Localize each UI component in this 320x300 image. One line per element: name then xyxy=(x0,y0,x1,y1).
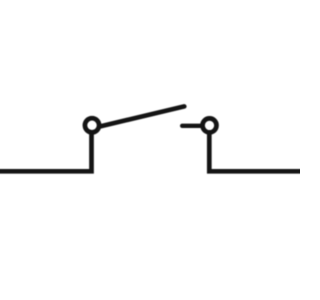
switch S1 left terminal xyxy=(85,118,99,132)
wire left lead with corner up to left terminal xyxy=(0,131,92,171)
wire right lead with corner from right terminal xyxy=(209,131,303,171)
switch S1 right terminal xyxy=(203,118,217,132)
switch S1 blade (open) xyxy=(101,106,185,126)
wire stub to right terminal xyxy=(182,124,201,128)
